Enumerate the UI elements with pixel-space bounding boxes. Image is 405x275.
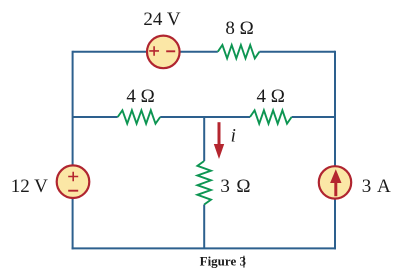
svg-text:8 Ω: 8 Ω [225, 18, 253, 39]
label 3 A [362, 176, 391, 197]
wire bottom rail [72, 247, 336, 249]
resistor 8 ohm (top) [218, 45, 260, 58]
svg-text:A: A [377, 176, 391, 197]
svg-text:12 V: 12 V [11, 176, 48, 197]
current source 3 A (right) [319, 166, 351, 198]
wire middle rail [73, 116, 335, 118]
svg-text:3: 3 [362, 176, 372, 197]
wire top rail [73, 51, 335, 53]
svg-text:Ω: Ω [236, 176, 250, 197]
resistor 3 ohm (center vertical) [197, 161, 211, 205]
label 3 ohm [220, 176, 250, 197]
svg-text:4 Ω: 4 Ω [257, 86, 285, 107]
wire right vertical [334, 51, 336, 250]
svg-text:i: i [231, 126, 236, 147]
wire left vertical [72, 51, 74, 250]
wire center vertical [203, 117, 205, 248]
resistor 4 ohm left (middle rail) [118, 110, 161, 123]
svg-text:4 Ω: 4 Ω [126, 86, 154, 107]
caption text cursor [243, 256, 244, 268]
voltage source 24 V (top) [147, 36, 180, 69]
resistor 4 ohm right (middle rail) [250, 110, 292, 123]
voltage source 12 V (left) [57, 165, 90, 198]
svg-text:24 V: 24 V [143, 9, 180, 30]
svg-text:3: 3 [220, 176, 230, 197]
current arrow i [214, 122, 224, 159]
svg-text:Figure 3: Figure 3 [200, 254, 247, 269]
